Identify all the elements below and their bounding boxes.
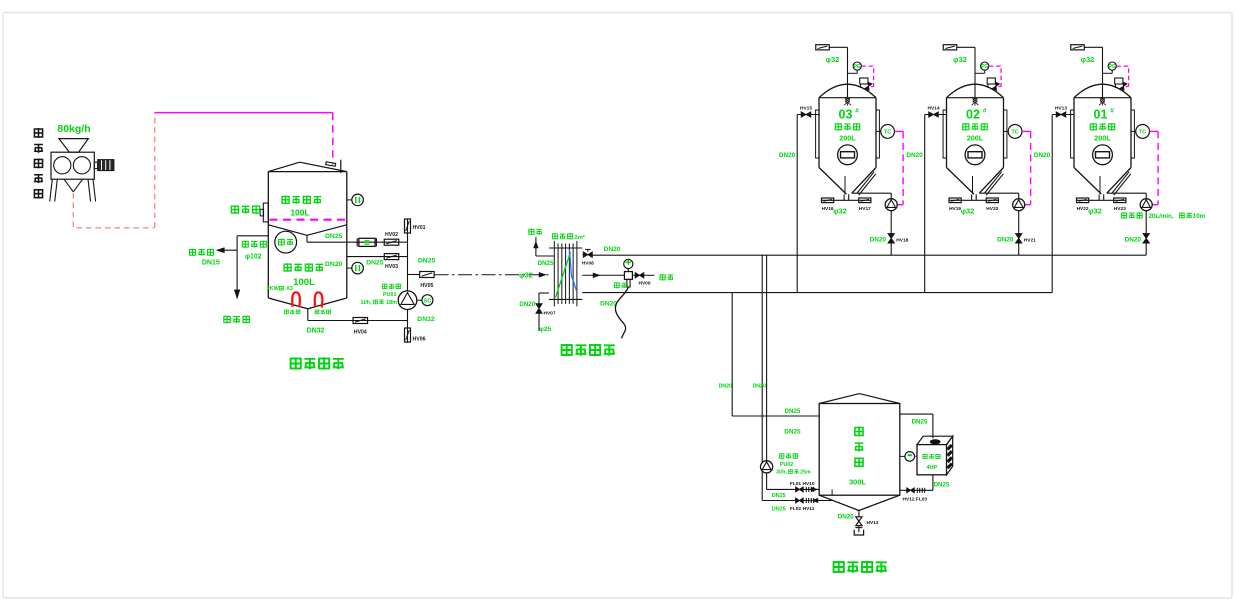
mash tun T1 roof: [268, 162, 299, 171]
svg-text:DN20: DN20: [1034, 152, 1051, 159]
electric heater element 2 (red): [315, 292, 323, 307]
svg-text:HV03: HV03: [385, 264, 398, 270]
label 充氧: [660, 274, 665, 280]
svg-text:HV16: HV16: [822, 206, 834, 212]
fermenter 01 drain valve: [1143, 234, 1149, 239]
fermenter 02 manway: [965, 145, 985, 165]
svg-text:80kg/h: 80kg/h: [57, 123, 90, 135]
svg-text:PG: PG: [854, 64, 861, 70]
valve HV01 (vertical): [405, 219, 411, 233]
fermenter 02 dome: [947, 84, 1004, 98]
wort line through exchanger: [582, 274, 624, 276]
fermenter 02 vent valve: [943, 45, 957, 50]
svg-text:HV18: HV18: [896, 238, 908, 244]
valve HV04: [353, 318, 368, 324]
malt line magenta top run: [155, 112, 333, 114]
svg-text:φ32: φ32: [953, 55, 967, 64]
fermenter 02 spray ball: [973, 98, 977, 102]
svg-text:DN20: DN20: [779, 152, 796, 159]
heat exchanger green diagonal: [556, 252, 571, 298]
wort transfer dash-dot line to heat exchanger: [435, 274, 549, 276]
svg-text:HV07: HV07: [544, 310, 556, 316]
slag port 除渣口: [263, 203, 268, 222]
fermenter 01 manway: [1093, 145, 1113, 165]
fermenter 03 racking arm: [857, 172, 874, 193]
wort line 2 DN20: [347, 256, 408, 258]
fermenter 01 temperature controller TC: [1131, 130, 1136, 132]
svg-text:300L: 300L: [849, 477, 866, 486]
label 麦水泵 PU01 1t/h 扬程18m: [382, 284, 387, 289]
svg-text:PG: PG: [981, 64, 988, 70]
svg-text:200L: 200L: [967, 133, 984, 142]
fermenter 03 cone: [819, 168, 846, 195]
svg-text:HV19: HV19: [949, 206, 961, 212]
fermenter 01 shell: [1073, 98, 1075, 168]
svg-text:25m: 25m: [800, 470, 811, 476]
svg-text:HV14: HV14: [928, 105, 940, 111]
svg-text:PU02: PU02: [780, 462, 794, 468]
label 煮沸旋沉 100L: [284, 263, 291, 271]
fermenter 03 side brackets: [816, 110, 819, 158]
svg-text:φ25: φ25: [539, 326, 551, 333]
temperature sensor on ice tank: [900, 455, 905, 457]
fermenter 03 manway: [838, 145, 858, 165]
plate heat exchanger frame: [549, 247, 582, 249]
fermenter 02 shell: [946, 98, 948, 168]
valve HV03: [384, 254, 399, 260]
svg-text:200L: 200L: [1094, 133, 1111, 142]
svg-text:DN20: DN20: [719, 383, 732, 389]
fermenter 03 dome: [819, 84, 876, 98]
valve HV09: [632, 274, 635, 276]
fermenter 03 vent valve: [816, 45, 830, 50]
svg-text:TC: TC: [1012, 130, 1019, 136]
fermenter 01 side brackets: [1071, 110, 1074, 158]
svg-text:DN20: DN20: [519, 301, 535, 308]
svg-text:DN20: DN20: [838, 513, 854, 520]
mash tun bottom cone: [268, 298, 308, 309]
malt crusher legs: [50, 179, 53, 201]
label 降温泵 20L/min 扬程10m: [1121, 212, 1126, 218]
filter section boundary magenta dashed: [270, 219, 347, 221]
svg-text:DN15: DN15: [202, 260, 220, 267]
fermenter 03 feed riser: [796, 115, 798, 293]
svg-text:200L: 200L: [839, 133, 856, 142]
svg-text:DN20: DN20: [753, 383, 766, 389]
title 冷却系统: [834, 561, 844, 573]
svg-text:FL01: FL01: [790, 481, 802, 487]
svg-text:#: #: [1110, 108, 1114, 115]
svg-text:DN25: DN25: [912, 418, 928, 425]
fermenter 01 cone: [1074, 168, 1101, 195]
svg-text:DN25: DN25: [366, 259, 384, 266]
fermenter 02 TC magenta signal line: [1022, 130, 1031, 132]
fermenter 03 TC magenta signal line: [895, 130, 904, 132]
svg-text:PU01: PU01: [383, 292, 397, 298]
malt conveying dashed line (salmon): [73, 193, 154, 228]
svg-text:φ32: φ32: [833, 206, 847, 215]
valve HV06 (vertical): [405, 328, 411, 342]
title 换热系统: [562, 344, 572, 356]
fermenter 02 feed riser: [924, 115, 926, 293]
svg-text:HV22: HV22: [1077, 206, 1089, 212]
svg-text:3t/h,: 3t/h,: [776, 470, 787, 476]
ice tank drain with valve HV13: [858, 511, 860, 517]
label 排汽筒 φ102: [242, 241, 248, 248]
svg-text:PG: PG: [1109, 64, 1116, 70]
svg-text:HV21: HV21: [1024, 238, 1036, 244]
svg-text:φ32: φ32: [1081, 55, 1095, 64]
fermenter 03 relief valve assembly: [860, 78, 868, 84]
chiller return line with HV12 FL03: [932, 475, 934, 491]
svg-text:DN25: DN25: [934, 481, 950, 488]
svg-text:03: 03: [839, 108, 853, 122]
mash tun internal filter cone: [268, 225, 307, 236]
fermenter 03 bottom valves HV16 HV17: [843, 195, 845, 201]
svg-text:φ32: φ32: [519, 270, 533, 279]
glycol supply and return verticals: [761, 255, 763, 500]
svg-text:HV13: HV13: [1055, 105, 1067, 111]
svg-text:HV08: HV08: [582, 260, 594, 266]
fermenter 02 racking arm: [985, 172, 1002, 193]
svg-text:HV15: HV15: [800, 105, 812, 111]
svg-text:DN20: DN20: [997, 236, 1014, 243]
svg-text:HV17: HV17: [859, 206, 871, 212]
svg-text:HV12: HV12: [903, 496, 915, 502]
svg-text:TC: TC: [884, 130, 891, 136]
cold water inlet with valve HV07: [539, 292, 549, 294]
fermenter 03 temperature controller TC: [876, 130, 881, 132]
fermenter 02 cone: [947, 168, 974, 195]
fermenter 01 inlet valve HV13: [1052, 114, 1074, 116]
svg-text:DN32: DN32: [307, 328, 325, 335]
svg-text:DN25: DN25: [784, 429, 801, 436]
ice water pump PU02: [761, 461, 773, 473]
svg-text:HV13: HV13: [867, 520, 879, 526]
svg-text:SC: SC: [424, 299, 432, 305]
fermenter 03 drain valve HV18: [888, 234, 894, 239]
fermenter 02 inlet valve HV14: [925, 114, 947, 116]
svg-text:φ32: φ32: [961, 206, 975, 215]
main wort bus line (bottom): [582, 292, 1052, 294]
svg-text:DN20: DN20: [604, 246, 621, 253]
svg-text:HV01: HV01: [413, 225, 426, 231]
svg-text:100L: 100L: [290, 208, 309, 218]
ice water return line B with FL02 HV11: [762, 500, 833, 502]
svg-text:φ32: φ32: [826, 55, 840, 64]
svg-text:DN25: DN25: [325, 233, 343, 240]
svg-text:DN25: DN25: [538, 260, 554, 267]
svg-text:2KW/: 2KW/: [267, 286, 281, 292]
oxygenation unit 充氧: [624, 259, 633, 268]
sight glass box on line 1: [356, 238, 358, 246]
flexible wort hose: [615, 287, 628, 338]
svg-text:02: 02: [966, 108, 980, 122]
sight glass on boil section: [347, 267, 352, 269]
svg-text:HV02: HV02: [385, 232, 398, 238]
malt crusher body with rollers: [51, 152, 94, 179]
svg-text:10m: 10m: [1193, 213, 1206, 220]
label 糖化过滤 100L: [282, 196, 289, 204]
label 电加热 x2: [285, 310, 289, 315]
fermenter 02 side brackets: [943, 110, 946, 158]
fermenter 01 relief valve assembly: [1115, 78, 1123, 84]
svg-text:X3: X3: [286, 286, 293, 292]
fermenter 01 racking arm: [1112, 172, 1129, 193]
svg-text:20L/min,: 20L/min,: [1148, 213, 1173, 220]
electric heater element 1 (red): [292, 292, 300, 307]
wort pump PU01: [398, 291, 417, 310]
manhole 手孔: [275, 231, 297, 253]
svg-text:φ102: φ102: [245, 253, 262, 260]
ice water tank 冰水罐 300L: [819, 394, 900, 404]
fermenter 03 recirculation pump: [852, 192, 891, 194]
svg-text:DN20: DN20: [325, 261, 343, 268]
cooling water riser to ice tank: [731, 293, 733, 416]
mash tun bottom outlet pipe DN32: [307, 309, 309, 321]
label 换热器 2m2: [552, 233, 557, 239]
chilled water top line DN25: [900, 413, 933, 415]
ice water supply line A with FL01 HV10: [767, 488, 820, 490]
chiller unit 制冷机 4HP: [917, 436, 953, 444]
svg-text:DN32: DN32: [417, 316, 435, 323]
fermenter 03 shell: [818, 98, 820, 168]
svg-text:HV23: HV23: [1114, 206, 1126, 212]
fermenter 03 inlet valve HV15: [797, 114, 819, 116]
valve HV02: [384, 239, 399, 245]
svg-text:18m: 18m: [386, 300, 397, 306]
label 冰水罐 300L: [855, 427, 863, 437]
svg-text:#: #: [983, 108, 987, 115]
svg-text:φ32: φ32: [1088, 206, 1102, 215]
svg-text:HV09: HV09: [639, 280, 651, 286]
svg-text:2m²: 2m²: [575, 234, 585, 241]
title 糖化系统: [291, 357, 301, 369]
svg-text:HV11: HV11: [803, 506, 815, 512]
svg-text:DN25: DN25: [418, 257, 436, 264]
fermenter 01 TC magenta signal line: [1150, 130, 1159, 132]
fermenter 02 temperature controller TC: [1004, 130, 1009, 132]
svg-text:HV04: HV04: [354, 330, 367, 336]
main wort bus line (top): [592, 254, 1146, 256]
svg-text:DN20: DN20: [1125, 236, 1142, 243]
sight glass on filter section: [347, 199, 352, 201]
fermenter 01 vent valve: [1071, 45, 1085, 50]
chilled wort top line DN20 with valve HV08: [582, 254, 583, 256]
svg-text:4HP: 4HP: [926, 465, 937, 471]
mash tun feed port on roof: [326, 162, 336, 166]
svg-text:1t/h,: 1t/h,: [360, 300, 372, 306]
label 冰水泵 PU02 3t/h 扬程25m: [779, 453, 784, 458]
svg-text:DN25: DN25: [784, 408, 800, 415]
transfer line 3 with valve HV05: [408, 274, 420, 276]
dip tube inside ice tank: [831, 489, 833, 495]
manifold vertical pipe: [407, 219, 409, 343]
mash tun shell: [267, 172, 269, 298]
svg-text:01: 01: [1094, 108, 1108, 122]
label 麦汁: [614, 282, 619, 288]
fermenter 01 pressure gauge PG: [1108, 62, 1116, 70]
fermenter 02 drain valve HV21: [1016, 234, 1022, 239]
svg-text:DN20: DN20: [906, 152, 923, 159]
fermenter 01 bottom valves HV22 HV23: [1098, 195, 1100, 201]
svg-text:FL03: FL03: [916, 496, 928, 502]
svg-text:DN20: DN20: [870, 236, 887, 243]
fermenter 03 spray ball: [846, 98, 850, 102]
fermenter 02 pressure gauge PG: [981, 62, 989, 70]
label 喷水口 DN15: [190, 249, 196, 256]
fermenter 01 feed riser: [1051, 115, 1053, 293]
svg-text:DN25: DN25: [772, 507, 786, 513]
fermenter 02 bottom valves HV19 HV20: [971, 195, 973, 201]
fermenter 01 spray ball: [1101, 98, 1105, 102]
svg-text:HV10: HV10: [803, 481, 815, 487]
svg-text:DN20: DN20: [600, 300, 617, 307]
svg-text:HV06: HV06: [413, 337, 426, 343]
malt crusher motor: [94, 162, 97, 168]
fermenter 01 recirculation pump: [1107, 192, 1146, 194]
svg-text:HV05: HV05: [420, 283, 433, 289]
malt crusher hopper: [59, 139, 88, 153]
malt crusher label 麦芽粉碎机 (vertical): [34, 128, 42, 138]
svg-text:TC: TC: [1139, 130, 1146, 136]
fermenter 03 pressure gauge PG: [853, 62, 861, 70]
malt line magenta dashed drop to mash tun: [332, 113, 334, 165]
exhaust stack 排汽筒: [237, 235, 268, 237]
wort line 1 from filter: [306, 235, 308, 242]
fermenter 01 dome: [1074, 84, 1131, 98]
svg-text:100L: 100L: [293, 277, 315, 288]
svg-text:#: #: [855, 108, 859, 115]
fermenter 02 relief valve assembly: [987, 78, 995, 84]
svg-text:FL02: FL02: [790, 506, 802, 512]
malt crusher discharge cone: [64, 179, 73, 192]
hot water outlet 热水: [536, 255, 554, 257]
svg-text:HV20: HV20: [986, 206, 998, 212]
svg-text:DN25: DN25: [772, 493, 786, 499]
heat exchanger blue diagonal: [570, 250, 577, 292]
label 冷凝水: [224, 316, 230, 323]
fermenter 02 recirculation pump: [979, 192, 1018, 194]
